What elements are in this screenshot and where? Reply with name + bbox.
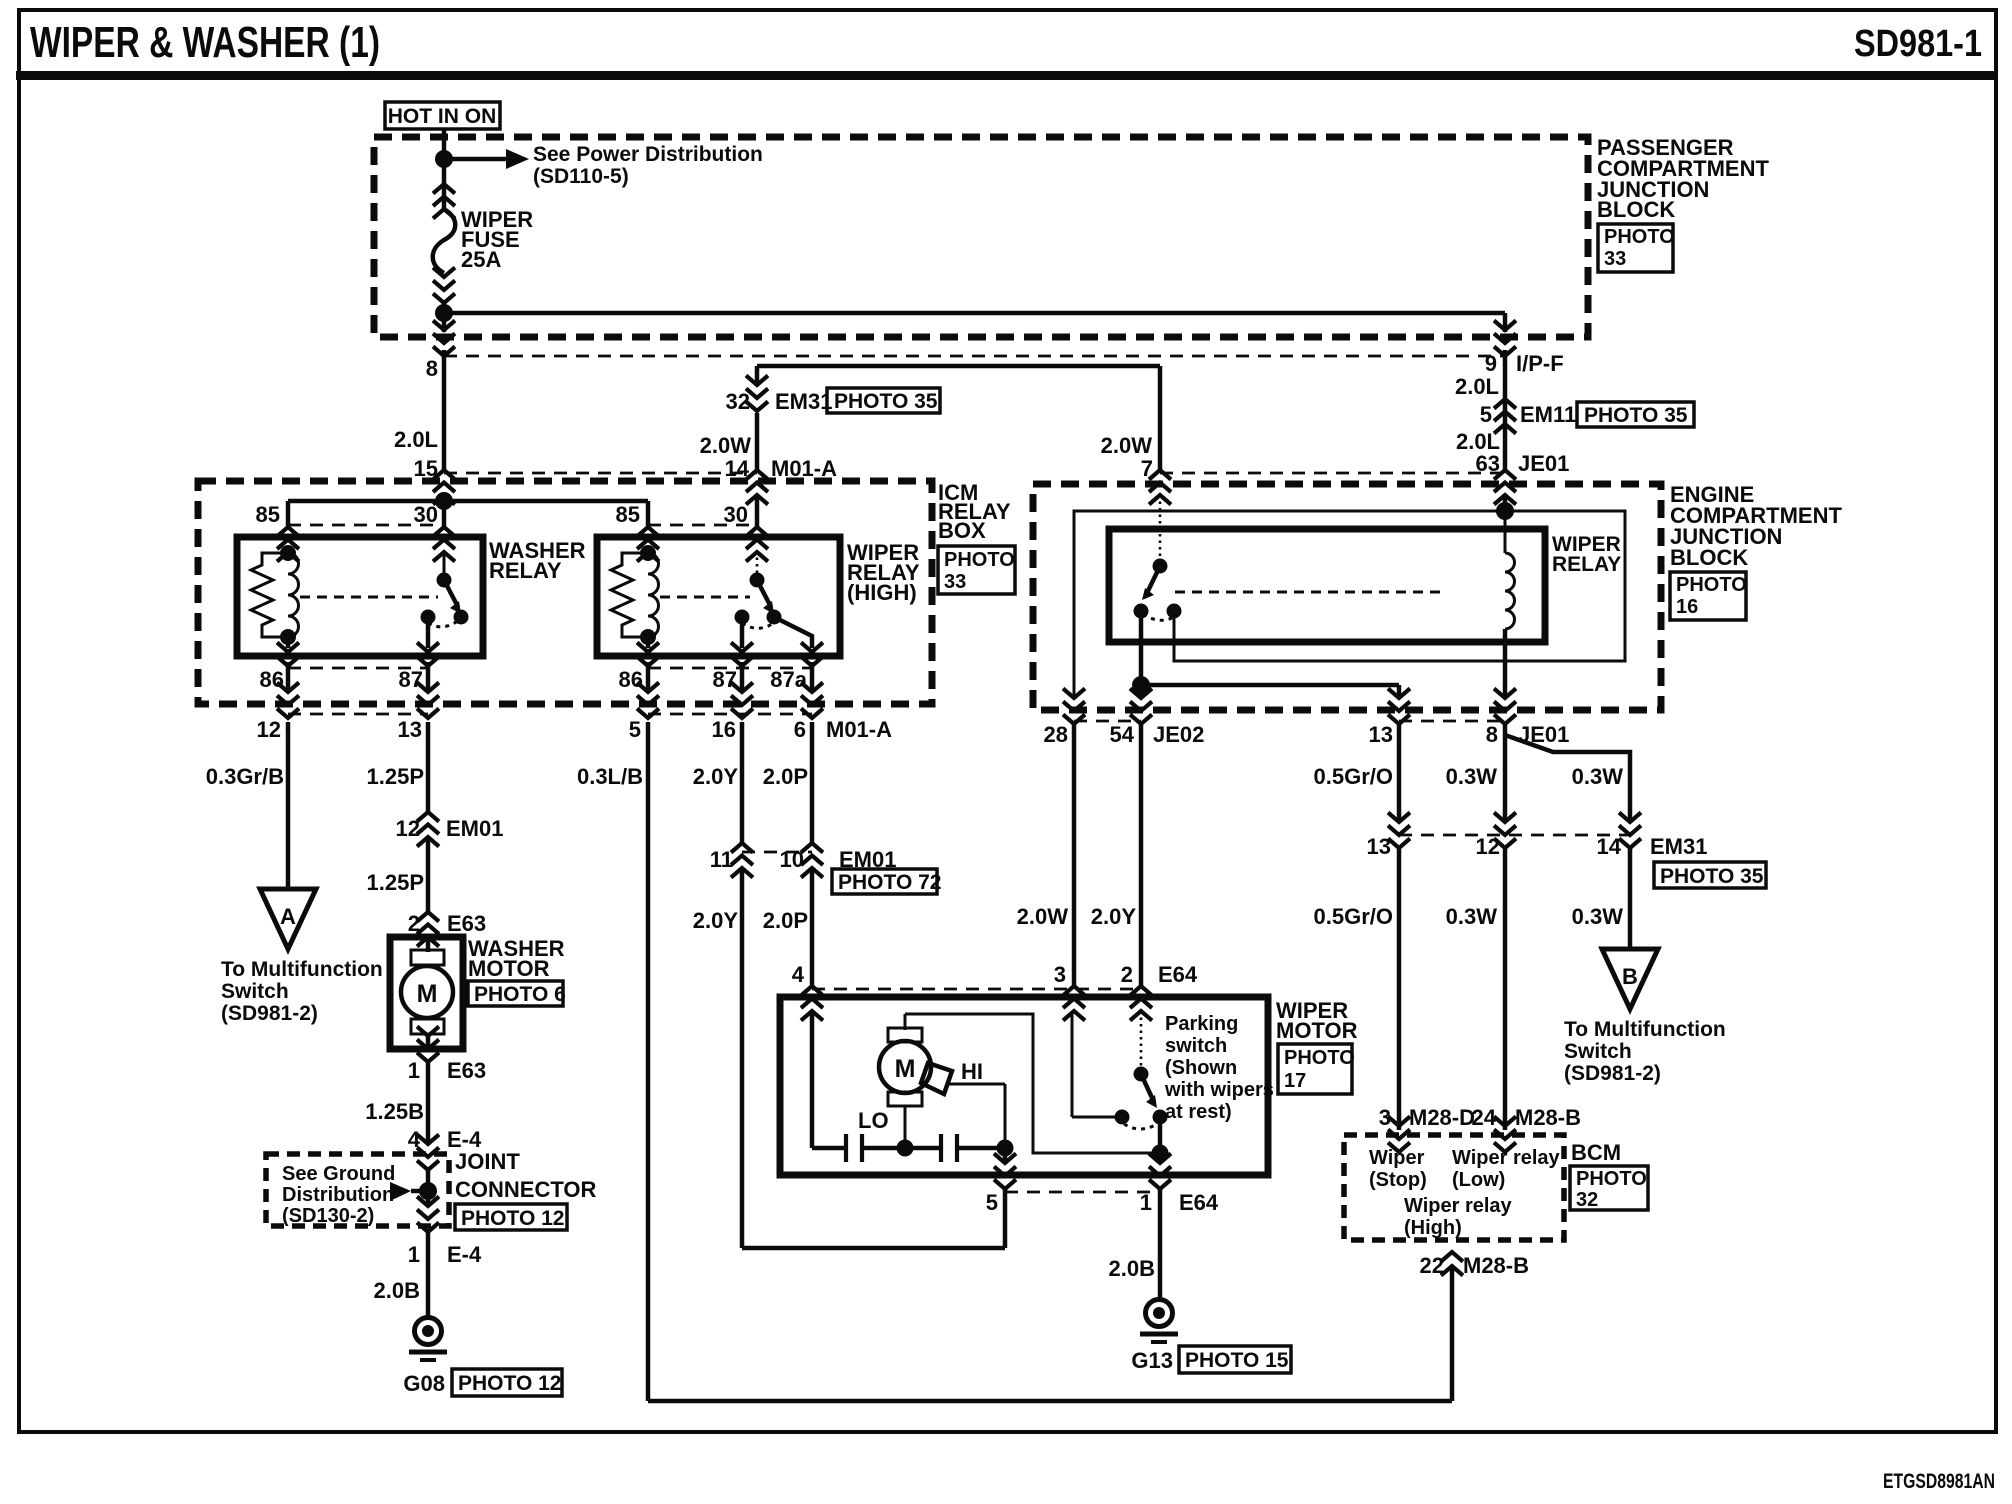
- svg-text:PHOTO 12: PHOTO 12: [461, 1207, 564, 1230]
- svg-text:8: 8: [1486, 722, 1498, 747]
- bus joining pins 85/30 inside ICM: [435, 492, 453, 510]
- wiper relay (high) box: [597, 537, 840, 656]
- svg-text:1: 1: [1140, 1190, 1152, 1215]
- svg-text:13: 13: [1367, 834, 1391, 859]
- svg-text:1: 1: [408, 1242, 420, 1267]
- svg-text:HI: HI: [961, 1059, 983, 1084]
- label: passenger compartment junction block: [1597, 135, 1769, 272]
- svg-text:15: 15: [414, 456, 438, 481]
- svg-text:PHOTO: PHOTO: [1576, 1168, 1647, 1190]
- pin 14 entry: [746, 470, 768, 505]
- connector EM01 pin 12: [417, 812, 439, 847]
- engine wiper relay box: [1109, 529, 1545, 642]
- svg-text:PHOTO: PHOTO: [1676, 574, 1747, 596]
- svg-text:1.25P: 1.25P: [367, 870, 425, 895]
- svg-text:PHOTO 35: PHOTO 35: [1660, 865, 1764, 888]
- svg-text:86: 86: [619, 667, 643, 692]
- svg-text:4: 4: [408, 1127, 421, 1152]
- washer relay resistor: [251, 553, 288, 637]
- svg-text:BLOCK: BLOCK: [1670, 545, 1748, 570]
- svg-text:16: 16: [1676, 596, 1698, 618]
- svg-text:PHOTO 15: PHOTO 15: [1185, 1349, 1289, 1372]
- svg-text:E64: E64: [1158, 962, 1198, 987]
- wire 13 / 0.5Gr/O: [1397, 724, 1402, 822]
- svg-text:22: 22: [1420, 1253, 1444, 1278]
- wire to See Power Distribution: [444, 157, 506, 162]
- wire 28 / 2.0W: [1072, 724, 1077, 986]
- thin dashed connector row 8-9: [444, 355, 1505, 358]
- svg-text:BOX: BOX: [938, 518, 986, 543]
- svg-text:8: 8: [426, 356, 438, 381]
- ground G13: [1140, 1300, 1178, 1343]
- svg-text:Distribution: Distribution: [282, 1184, 394, 1206]
- node: power tap: [435, 150, 453, 168]
- svg-text:32: 32: [1576, 1189, 1598, 1211]
- svg-text:PHOTO 35: PHOTO 35: [1584, 404, 1688, 427]
- svg-text:G08: G08: [403, 1371, 445, 1396]
- svg-text:M: M: [417, 980, 438, 1008]
- svg-text:33: 33: [1604, 248, 1626, 270]
- wire 6 / 2.0P: [810, 722, 815, 843]
- svg-text:0.3W: 0.3W: [1446, 904, 1498, 929]
- wire 16 / 2.0Y: [740, 722, 745, 843]
- svg-text:14: 14: [1597, 834, 1622, 859]
- svg-text:M: M: [895, 1055, 916, 1083]
- connector pin 9 exit: [1494, 321, 1516, 357]
- svg-text:14: 14: [725, 456, 750, 481]
- svg-text:0.5Gr/O: 0.5Gr/O: [1314, 764, 1393, 789]
- svg-text:MOTOR: MOTOR: [468, 956, 550, 981]
- svg-text:13: 13: [1369, 722, 1393, 747]
- node pin63/coil: [1496, 502, 1514, 520]
- svg-text:3: 3: [1054, 962, 1066, 987]
- BCM pin 22: [1441, 1252, 1463, 1276]
- triangle A: [260, 889, 316, 949]
- svg-text:(Stop): (Stop): [1369, 1169, 1427, 1191]
- svg-text:4: 4: [792, 962, 805, 987]
- svg-text:MOTOR: MOTOR: [1276, 1018, 1358, 1043]
- svg-text:1: 1: [408, 1058, 420, 1083]
- motor M: [904, 1014, 907, 1030]
- svg-text:Switch: Switch: [221, 980, 289, 1003]
- connector EM01 pin 10: [801, 843, 823, 878]
- second contact plates: [939, 1134, 943, 1162]
- washer relay pin 30: [433, 527, 455, 562]
- BCM pin 24: [1494, 1117, 1516, 1153]
- wire 13 / 1.25P washer motor column: [426, 722, 431, 812]
- svg-text:2.0W: 2.0W: [1101, 433, 1153, 458]
- svg-text:See Power Distribution: See Power Distribution: [533, 143, 763, 166]
- svg-text:Switch: Switch: [1564, 1040, 1632, 1063]
- svg-text:BLOCK: BLOCK: [1597, 197, 1675, 222]
- svg-text:6: 6: [794, 717, 806, 742]
- ground G08: [409, 1318, 447, 1361]
- svg-text:PHOTO 35: PHOTO 35: [834, 390, 938, 413]
- svg-text:13: 13: [398, 717, 422, 742]
- svg-text:2.0Y: 2.0Y: [1091, 904, 1137, 929]
- wiper relay (high) mech dashed link: [660, 596, 750, 599]
- BCM pin 3: [1388, 1117, 1410, 1153]
- svg-text:2.0L: 2.0L: [394, 427, 438, 452]
- svg-text:87a: 87a: [770, 667, 807, 692]
- thin dashed row 86-87-87a: [648, 667, 812, 670]
- thin dashed connector rows: [444, 472, 757, 475]
- svg-text:M01-A: M01-A: [771, 456, 837, 481]
- engine relay coil: [1504, 511, 1507, 553]
- svg-text:JE02: JE02: [1153, 722, 1204, 747]
- connector E-4 pin 4: [417, 1135, 439, 1171]
- connector EM31 pin 32: [746, 376, 768, 412]
- svg-text:2.0W: 2.0W: [700, 433, 752, 458]
- svg-text:BCM: BCM: [1571, 1140, 1621, 1165]
- svg-text:25A: 25A: [461, 247, 501, 272]
- svg-text:33: 33: [944, 571, 966, 593]
- svg-text:HOT IN ON: HOT IN ON: [388, 105, 497, 128]
- parking switch: [1140, 1011, 1143, 1074]
- svg-text:JE01: JE01: [1518, 451, 1569, 476]
- wiper relay (high) exit (87a): [801, 643, 823, 667]
- wire 12 / 0.3Gr/B to triangle A: [286, 722, 291, 889]
- washer relay switch exit (87): [417, 643, 439, 667]
- node pin54 branch: [1132, 676, 1150, 694]
- washer relay inductor: [288, 553, 299, 637]
- svg-text:M28-D: M28-D: [1409, 1105, 1475, 1130]
- svg-text:0.3W: 0.3W: [1572, 764, 1624, 789]
- svg-text:5: 5: [629, 717, 641, 742]
- svg-text:2.0W: 2.0W: [1017, 904, 1069, 929]
- svg-text:(SD130-2): (SD130-2): [282, 1205, 374, 1227]
- pin 63 entry (engine): [1494, 470, 1516, 505]
- engine relay internal loop wire: [1074, 511, 1625, 698]
- svg-text:2.0B: 2.0B: [374, 1278, 420, 1303]
- svg-text:2: 2: [1121, 962, 1133, 987]
- washer relay coil node top: [280, 545, 296, 561]
- svg-text:CONNECTOR: CONNECTOR: [455, 1177, 596, 1202]
- connector E-4 pin 1: [417, 1197, 439, 1233]
- svg-text:(HIGH): (HIGH): [847, 580, 917, 605]
- wiper relay (high) switch: [756, 551, 759, 580]
- svg-text:I/P-F: I/P-F: [1516, 351, 1564, 376]
- svg-text:See Ground: See Ground: [282, 1163, 395, 1185]
- svg-text:85: 85: [616, 502, 640, 527]
- middle top loop wire EM31-32 to engine pin 7: [757, 364, 1160, 369]
- wire bus to right: [442, 303, 447, 332]
- E64 top row connectors 4,3,2: [801, 986, 823, 1021]
- svg-text:12: 12: [1476, 834, 1500, 859]
- svg-text:0.3Gr/B: 0.3Gr/B: [206, 764, 284, 789]
- wiper relay (high) resistor: [611, 553, 648, 637]
- svg-text:at rest): at rest): [1165, 1101, 1232, 1123]
- svg-text:2: 2: [408, 911, 420, 936]
- svg-text:2.0L: 2.0L: [1455, 374, 1499, 399]
- connector E63 pin 2: [417, 912, 439, 947]
- svg-text:30: 30: [724, 502, 748, 527]
- svg-text:0.5Gr/O: 0.5Gr/O: [1314, 904, 1393, 929]
- svg-text:3: 3: [1379, 1105, 1391, 1130]
- connector E63 pin 1: [417, 1027, 439, 1063]
- svg-text:JOINT: JOINT: [455, 1149, 520, 1174]
- svg-text:5: 5: [1480, 402, 1492, 427]
- ICM bottom exits: [277, 683, 299, 719]
- engine relay switch: [1159, 495, 1162, 566]
- svg-text:Parking: Parking: [1165, 1013, 1238, 1035]
- svg-text:(SD110-5): (SD110-5): [533, 165, 629, 188]
- svg-text:0.3W: 0.3W: [1572, 904, 1624, 929]
- washer relay box: [237, 537, 483, 656]
- connector EM31 row 13-12-14: [1388, 813, 1410, 849]
- pin 7 entry (engine): [1149, 470, 1171, 505]
- svg-text:To Multifunction: To Multifunction: [221, 958, 383, 981]
- svg-text:12: 12: [257, 717, 281, 742]
- svg-text:30: 30: [414, 502, 438, 527]
- svg-text:17: 17: [1284, 1070, 1306, 1092]
- svg-text:E-4: E-4: [447, 1242, 482, 1267]
- wiper relay (high) coil exit (86): [646, 637, 651, 648]
- svg-text:EM11: EM11: [1520, 402, 1576, 427]
- HI contact: [921, 1063, 952, 1094]
- pin 15 entry: [433, 470, 455, 505]
- svg-text:LO: LO: [858, 1108, 889, 1133]
- engine bottom exits: [1063, 689, 1085, 725]
- svg-text:E63: E63: [447, 911, 486, 936]
- washer relay mech dashed link: [300, 596, 438, 599]
- svg-text:PHOTO 12: PHOTO 12: [458, 1372, 561, 1395]
- wiper fuse 25A: [433, 184, 533, 303]
- svg-text:28: 28: [1044, 722, 1068, 747]
- joint connector area: [266, 1154, 449, 1226]
- svg-text:85: 85: [256, 502, 280, 527]
- wire 8 / 0.3W with split: [1503, 724, 1508, 822]
- svg-text:54: 54: [1110, 722, 1135, 747]
- connector EM01 pin 11: [731, 843, 753, 878]
- wiper relay (high) coil nodes: [640, 545, 656, 561]
- node below fuse: [435, 304, 453, 322]
- svg-text:11: 11: [710, 847, 733, 872]
- svg-text:24: 24: [1472, 1105, 1497, 1130]
- svg-text:87: 87: [713, 667, 737, 692]
- svg-text:RELAY: RELAY: [1552, 553, 1621, 576]
- svg-text:B: B: [1622, 964, 1638, 989]
- wiper relay (high) pin 30: [746, 527, 768, 562]
- svg-text:ETGSD8981AN: ETGSD8981AN: [1883, 1470, 1995, 1493]
- svg-text:Wiper relay: Wiper relay: [1404, 1195, 1513, 1217]
- connector EM11 pin 5: [1494, 399, 1516, 434]
- svg-text:1.25B: 1.25B: [365, 1099, 424, 1124]
- svg-text:Wiper: Wiper: [1369, 1147, 1425, 1169]
- svg-text:(SD981-2): (SD981-2): [1564, 1062, 1661, 1085]
- wire from HOT IN ON down: [442, 129, 447, 210]
- wires into boxes: [442, 495, 447, 501]
- svg-text:2.0Y: 2.0Y: [693, 908, 739, 933]
- svg-text:PHOTO 6: PHOTO 6: [474, 983, 566, 1006]
- svg-text:(Low): (Low): [1452, 1169, 1505, 1191]
- washer relay coil node bottom: [280, 629, 296, 645]
- svg-text:0.3L/B: 0.3L/B: [577, 764, 643, 789]
- svg-text:G13: G13: [1131, 1348, 1173, 1373]
- LO contact plates: [844, 1134, 848, 1162]
- thin dashed row 86-87: [288, 667, 428, 670]
- engine relay mech dashed link: [1175, 591, 1445, 594]
- triangle B: [1602, 949, 1658, 1009]
- pin4 wire to LO contact: [810, 1011, 815, 1148]
- svg-text:0.3W: 0.3W: [1446, 764, 1498, 789]
- svg-text:(Shown: (Shown: [1165, 1057, 1237, 1079]
- passenger compartment junction block (dashed): [374, 137, 1588, 337]
- thin dashed row 85-30: [288, 524, 444, 527]
- svg-text:WIPER & WASHER (1): WIPER & WASHER (1): [30, 18, 380, 67]
- svg-text:16: 16: [712, 717, 736, 742]
- svg-text:PHOTO: PHOTO: [944, 549, 1015, 571]
- wiper relay (high) inductor: [648, 553, 659, 637]
- washer relay coil bottom exit (86): [286, 637, 291, 648]
- wire pin1 to ground G13: [1158, 1189, 1163, 1299]
- svg-text:M01-A: M01-A: [826, 717, 892, 742]
- svg-text:Wiper relay: Wiper relay: [1452, 1147, 1561, 1169]
- svg-text:with wipers: with wipers: [1164, 1079, 1274, 1101]
- svg-text:switch: switch: [1165, 1035, 1227, 1057]
- washer relay switch: [443, 551, 446, 580]
- svg-text:87: 87: [399, 667, 423, 692]
- svg-text:A: A: [280, 904, 296, 929]
- svg-text:(High): (High): [1404, 1217, 1462, 1239]
- svg-text:RELAY: RELAY: [489, 558, 562, 583]
- svg-text:EM31: EM31: [775, 389, 832, 414]
- E64 bottom row connectors 5,1: [994, 1154, 1016, 1190]
- washer motor: [390, 937, 463, 1049]
- svg-text:1.25P: 1.25P: [367, 764, 425, 789]
- header rule: [16, 71, 1996, 80]
- svg-text:M28-B: M28-B: [1515, 1105, 1581, 1130]
- svg-text:2.0P: 2.0P: [763, 908, 808, 933]
- svg-text:SD981-1: SD981-1: [1854, 23, 1982, 65]
- svg-text:5: 5: [986, 1190, 998, 1215]
- svg-text:7: 7: [1141, 456, 1153, 481]
- HOT IN ON box: [385, 102, 500, 129]
- wire 54 / 2.0Y: [1139, 724, 1144, 986]
- svg-text:EM31: EM31: [1650, 834, 1707, 859]
- svg-text:M28-B: M28-B: [1463, 1253, 1529, 1278]
- svg-text:To Multifunction: To Multifunction: [1564, 1018, 1726, 1041]
- svg-text:2.0Y: 2.0Y: [693, 764, 739, 789]
- svg-text:PHOTO 72: PHOTO 72: [838, 871, 941, 894]
- washer relay pin 85: [277, 527, 299, 562]
- svg-text:2.0P: 2.0P: [763, 764, 808, 789]
- wire 5 / 0.3L/B long run to BCM 22: [646, 722, 651, 1401]
- svg-text:32: 32: [726, 389, 750, 414]
- wiper relay (high) switch exit (87): [731, 643, 753, 667]
- svg-text:PHOTO: PHOTO: [1604, 226, 1675, 248]
- svg-text:PHOTO: PHOTO: [1284, 1047, 1355, 1069]
- wiper relay (high) pin 85: [637, 527, 659, 562]
- svg-text:2.0B: 2.0B: [1109, 1256, 1155, 1281]
- svg-text:E64: E64: [1179, 1190, 1219, 1215]
- connector pin 8 exit: [433, 321, 455, 357]
- svg-text:EM01: EM01: [446, 816, 503, 841]
- svg-text:86: 86: [260, 667, 284, 692]
- svg-text:E63: E63: [447, 1058, 486, 1083]
- svg-text:12: 12: [396, 816, 420, 841]
- svg-text:(SD981-2): (SD981-2): [221, 1002, 318, 1025]
